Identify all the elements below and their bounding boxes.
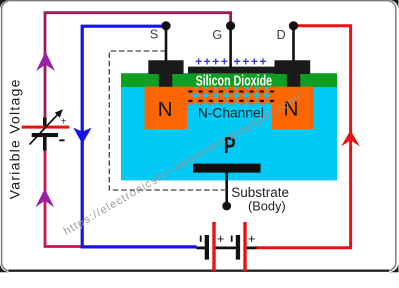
svg-text:++++: ++++ — [195, 54, 229, 68]
battery minus tick cell 1 — [200, 236, 202, 242]
corner wedge bottom-right — [388, 262, 399, 273]
drain metal contact — [275, 60, 311, 86]
svg-text:Silicon Dioxide: Silicon Dioxide — [196, 74, 273, 90]
source metal contact — [148, 60, 183, 86]
battery cell 2 positive plate — [243, 222, 246, 271]
battery minus tick cell 2 — [231, 236, 233, 242]
battery cell 1 negative plate — [205, 235, 209, 260]
svg-text:++++: ++++ — [234, 54, 268, 68]
svg-text:Variable Voltage: Variable Voltage — [7, 78, 23, 199]
svg-text:+: + — [248, 232, 255, 246]
corner wedge bottom-left — [0, 262, 11, 273]
silicon dioxide layer (green) — [121, 73, 337, 87]
variable voltage source: red plate — [22, 126, 70, 129]
purple current arrow upper-left — [36, 52, 55, 72]
darker bottom border edge — [9, 270, 390, 272]
N well right (drain) — [272, 87, 314, 130]
terminal dot D — [289, 21, 298, 30]
svg-text:N: N — [158, 98, 173, 121]
terminal dot G — [226, 21, 235, 30]
svg-text:D: D — [277, 28, 286, 42]
battery black lead segments — [197, 246, 206, 249]
substrate lead — [225, 172, 228, 203]
svg-text:+: + — [217, 232, 224, 246]
wire: gate loop (maroon) top and right — [45, 13, 231, 128]
red current arrow (up) — [341, 130, 360, 146]
wire: gate loop lower maroon segment to junction with blue — [45, 137, 84, 247]
corner wedge top-right — [388, 0, 399, 11]
substrate body dot — [222, 202, 231, 211]
substrate contact bar — [193, 164, 261, 173]
gate electrode bar — [188, 67, 278, 74]
battery cell 2 negative plate — [236, 235, 240, 260]
svg-text:(Body): (Body) — [248, 198, 286, 213]
variable source - sign — [59, 139, 64, 141]
P substrate body (cyan) — [121, 87, 337, 181]
wire: source loop (blue) — [82, 26, 196, 247]
wire: black stubs at variable source — [43, 118, 47, 129]
corner wedge top-left — [0, 0, 10, 10]
terminal lead D — [292, 26, 295, 61]
N-channel electrons (two rows of orange circles with minus dashes) — [185, 86, 277, 105]
N well left (source) — [145, 87, 188, 130]
wire: drain loop (red) — [255, 26, 351, 248]
blue current arrow (down) — [73, 128, 91, 144]
variable voltage source: black plate — [32, 133, 58, 137]
variable voltage source: diagonal arrow — [30, 113, 60, 145]
svg-text:G: G — [212, 28, 222, 42]
svg-text:+: + — [61, 117, 67, 128]
battery cell 1 positive plate — [212, 222, 215, 271]
dashed MOSFET boundary box — [109, 51, 225, 190]
terminal lead S — [165, 26, 168, 61]
terminal dot S — [161, 21, 170, 30]
terminal lead G — [229, 26, 232, 68]
svg-text:S: S — [150, 28, 158, 42]
purple current arrow lower-left — [35, 189, 54, 207]
